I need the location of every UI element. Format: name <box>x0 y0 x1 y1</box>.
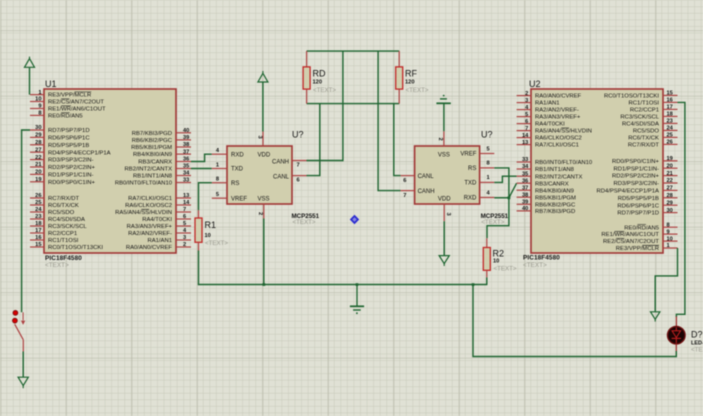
svg-text:VSS: VSS <box>258 196 270 202</box>
svg-text:RA0/AN0/CVREF: RA0/AN0/CVREF <box>535 94 582 100</box>
resistor R1 10 <box>195 210 228 250</box>
wire U3 VSS pin2 to ground bus <box>263 219 265 285</box>
svg-text:RC5/SDO: RC5/SDO <box>48 210 75 216</box>
svg-text:RE0/RD/AN5: RE0/RD/AN5 <box>48 114 83 120</box>
wire R1 to ground bus <box>198 251 200 286</box>
svg-text:CANL: CANL <box>273 175 290 181</box>
svg-text:RD2/PSP2/C2IN+: RD2/PSP2/C2IN+ <box>48 165 96 171</box>
svg-text:15: 15 <box>667 91 673 97</box>
svg-text:7: 7 <box>403 193 406 199</box>
svg-text:37: 37 <box>183 149 189 155</box>
svg-text:RB7/KBI3/PGD: RB7/KBI3/PGD <box>132 131 172 137</box>
svg-text:RE2/CS/AN7/C2OUT: RE2/CS/AN7/C2OUT <box>603 239 659 245</box>
svg-text:6: 6 <box>297 178 300 184</box>
svg-text:VDD: VDD <box>438 197 451 203</box>
svg-text:RC4/SDI/SDA: RC4/SDI/SDA <box>622 122 659 128</box>
svg-text:3: 3 <box>525 98 528 104</box>
wire CAN top bus <box>307 50 400 52</box>
svg-text:PIC18F4580: PIC18F4580 <box>45 255 82 262</box>
wire junction diagonal to U2 pin36 CANRX <box>509 183 517 198</box>
svg-text:1: 1 <box>667 243 670 249</box>
svg-text:RB2/INT2/CANTX: RB2/INT2/CANTX <box>535 174 583 180</box>
svg-text:RC7/RX/DT: RC7/RX/DT <box>628 143 659 149</box>
svg-text:RF: RF <box>405 69 417 79</box>
svg-text:RA4/T0CKI: RA4/T0CKI <box>535 122 565 128</box>
svg-text:RE2/CS/AN7/C2OUT: RE2/CS/AN7/C2OUT <box>48 100 104 106</box>
svg-text:5: 5 <box>487 146 490 152</box>
svg-text:RA5/AN4/SS/HLVDIN: RA5/AN4/SS/HLVDIN <box>115 210 172 216</box>
svg-text:23: 23 <box>667 119 673 125</box>
svg-text:25: 25 <box>35 200 41 206</box>
wire U2 pin1 MCLR to power arrow <box>655 248 677 311</box>
svg-text:RC6/TX/CK: RC6/TX/CK <box>48 203 79 209</box>
wire power arrow to U3 VDD pin3 <box>262 82 264 132</box>
CAN transceiver U? (left) MCP2551 <box>212 130 320 227</box>
svg-text:RD: RD <box>313 69 326 79</box>
svg-text:40: 40 <box>183 128 189 134</box>
svg-text:VREF: VREF <box>231 196 247 202</box>
svg-text:RB3/CANRX: RB3/CANRX <box>138 160 172 166</box>
svg-text:27: 27 <box>667 186 673 192</box>
svg-text:RA7/CLKI/OSC1: RA7/CLKI/OSC1 <box>535 143 579 149</box>
svg-text:27: 27 <box>35 147 41 153</box>
svg-text:RXD: RXD <box>464 196 477 202</box>
svg-text:28: 28 <box>667 193 673 199</box>
switch SW-SPST <box>13 311 25 352</box>
svg-text:RXD: RXD <box>231 152 244 158</box>
svg-text:RA1/AN1: RA1/AN1 <box>147 238 172 244</box>
svg-text:25: 25 <box>667 133 673 139</box>
svg-text:RB0/INT0/FLT0/AN10: RB0/INT0/FLT0/AN10 <box>535 160 593 166</box>
svg-text:21: 21 <box>35 162 41 168</box>
svg-text:38: 38 <box>522 192 528 198</box>
svg-text:26: 26 <box>35 193 41 199</box>
svg-text:RC3/SCK/SCL: RC3/SCK/SCL <box>620 115 659 121</box>
svg-text:8: 8 <box>216 177 219 183</box>
svg-text:10: 10 <box>667 236 673 242</box>
power terminal (arrow down) below U4 <box>439 256 449 266</box>
svg-text:RE1/WR/AN6/C1OUT: RE1/WR/AN6/C1OUT <box>601 232 659 238</box>
svg-text:RE3/VPP/MCLR: RE3/VPP/MCLR <box>48 93 91 99</box>
svg-text:VDD: VDD <box>258 152 271 158</box>
svg-text:1: 1 <box>38 90 41 96</box>
svg-text:22: 22 <box>35 155 41 161</box>
svg-text:7: 7 <box>183 207 186 213</box>
svg-text:RC7/RX/DT: RC7/RX/DT <box>48 196 79 202</box>
svg-text:RC3/SCK/SCL: RC3/SCK/SCL <box>48 224 87 230</box>
junction ground bus / U3 VSS <box>263 283 266 286</box>
svg-text:33: 33 <box>183 178 189 184</box>
svg-text:21: 21 <box>667 171 673 177</box>
svg-text:120: 120 <box>313 80 323 86</box>
svg-text:2: 2 <box>183 242 186 248</box>
svg-text:RC0/T1OSO/T13CKI: RC0/T1OSO/T13CKI <box>604 94 659 100</box>
svg-text:19: 19 <box>35 177 41 183</box>
svg-text:U?: U? <box>481 130 493 140</box>
svg-text:RC1/T1OSI: RC1/T1OSI <box>48 238 79 244</box>
svg-text:29: 29 <box>35 133 41 139</box>
svg-text:RA7/CLKI/OSC1: RA7/CLKI/OSC1 <box>128 196 172 202</box>
svg-text:RA1/AN1: RA1/AN1 <box>535 101 560 107</box>
wire U4 RS pin8 to junction <box>494 168 509 198</box>
svg-text:29: 29 <box>667 200 673 206</box>
wire U1 pin35 CANTX to U3 TXD <box>191 168 212 170</box>
svg-text:3: 3 <box>445 213 451 216</box>
svg-text:6: 6 <box>403 178 406 184</box>
svg-text:2: 2 <box>257 212 263 215</box>
wire U3 CANL to bottom bus <box>307 104 320 176</box>
svg-text:120: 120 <box>405 80 415 86</box>
svg-text:13: 13 <box>522 140 528 146</box>
wire R2 to ground bus <box>486 277 488 285</box>
svg-text:17: 17 <box>35 228 41 234</box>
svg-text:14: 14 <box>183 200 190 206</box>
svg-text:VREF: VREF <box>460 152 476 158</box>
svg-text:8: 8 <box>38 111 41 117</box>
svg-text:RA0/AN0/CVREF: RA0/AN0/CVREF <box>126 245 173 251</box>
svg-text:R1: R1 <box>205 220 217 230</box>
svg-text:RD6/PSP6/P1C: RD6/PSP6/P1C <box>617 203 659 209</box>
svg-text:13: 13 <box>183 193 189 199</box>
svg-text:33: 33 <box>522 157 528 163</box>
svg-text:RB2/INT2/CANTX: RB2/INT2/CANTX <box>125 167 173 173</box>
svg-text:36: 36 <box>522 178 528 184</box>
svg-text:24: 24 <box>667 126 674 132</box>
svg-text:CANH: CANH <box>418 189 435 195</box>
origin marker (blue diamond) <box>350 215 359 224</box>
svg-text:8: 8 <box>487 161 490 167</box>
svg-text:3: 3 <box>257 136 263 139</box>
svg-text:CANH: CANH <box>272 160 289 166</box>
svg-text:RD7/PSP7/P1D: RD7/PSP7/P1D <box>617 211 659 217</box>
wire U2 pin16 to LED anode <box>676 102 685 317</box>
svg-text:38: 38 <box>183 142 189 148</box>
wire U1 pin30 RD7 to switch <box>22 130 30 312</box>
svg-text:RB4/KBI0/AN9: RB4/KBI0/AN9 <box>535 188 574 194</box>
svg-text:1: 1 <box>487 175 490 181</box>
svg-text:19: 19 <box>667 156 673 162</box>
svg-text:18: 18 <box>35 221 41 227</box>
ground terminal (arrow down) bottom-left <box>18 377 28 388</box>
wire U1 pin36 CANRX to U3 RXD <box>191 154 212 161</box>
svg-text:TXD: TXD <box>231 167 244 173</box>
svg-text:20: 20 <box>667 163 673 169</box>
svg-text:5: 5 <box>183 221 186 227</box>
svg-text:16: 16 <box>667 98 673 104</box>
wire U4 CANH to top bus <box>378 51 401 191</box>
svg-text:7: 7 <box>297 163 300 169</box>
svg-text:D?: D? <box>691 330 703 340</box>
svg-text:RB7/KBI3/PGD: RB7/KBI3/PGD <box>535 209 575 215</box>
power terminal (arrow down) for U2 MCLR net <box>651 312 660 322</box>
svg-text:VSS: VSS <box>438 152 450 158</box>
svg-text:RC2/CCP1: RC2/CCP1 <box>48 231 77 237</box>
svg-text:RE0/RD/AN5: RE0/RD/AN5 <box>624 225 659 231</box>
svg-text:RD3/PSP3/C2IN-: RD3/PSP3/C2IN- <box>613 181 659 187</box>
svg-text:36: 36 <box>183 157 189 163</box>
svg-text:30: 30 <box>35 125 41 131</box>
svg-text:<TEXT>: <TEXT> <box>293 219 316 226</box>
svg-text:28: 28 <box>35 140 41 146</box>
svg-text:RB6/KBI2/PGC: RB6/KBI2/PGC <box>535 202 576 208</box>
LED D? <box>668 317 703 354</box>
svg-text:<TEXT>: <TEXT> <box>313 87 336 94</box>
svg-text:14: 14 <box>522 133 529 139</box>
svg-text:24: 24 <box>35 207 42 213</box>
svg-text:5: 5 <box>216 192 219 198</box>
wire U3 RS pin8 to R1 <box>199 183 212 211</box>
svg-text:8: 8 <box>667 222 670 228</box>
svg-text:30: 30 <box>667 208 673 214</box>
svg-text:3: 3 <box>183 235 186 241</box>
svg-text:<TEXT>: <TEXT> <box>205 240 228 247</box>
svg-text:34: 34 <box>522 164 529 170</box>
svg-text:9: 9 <box>667 229 670 235</box>
svg-text:35: 35 <box>522 171 528 177</box>
wire U3 CANH to top bus <box>307 51 343 160</box>
svg-text:2: 2 <box>437 138 443 141</box>
resistor RF 120 <box>396 51 429 104</box>
svg-text:CANL: CANL <box>418 174 435 180</box>
svg-text:RC2/CCP1: RC2/CCP1 <box>630 108 659 114</box>
svg-text:16: 16 <box>35 235 41 241</box>
svg-text:RD1/PSP1/C1IN-: RD1/PSP1/C1IN- <box>613 166 659 172</box>
svg-text:7: 7 <box>525 126 528 132</box>
svg-text:15: 15 <box>35 242 41 248</box>
wire junction to U4 RXD pin4 <box>494 197 509 199</box>
svg-text:R2: R2 <box>493 249 505 259</box>
svg-text:RB5/KBI1/PGM: RB5/KBI1/PGM <box>535 195 576 201</box>
svg-text:RD5/PSP5/P1B: RD5/PSP5/P1B <box>48 143 89 149</box>
svg-text:10: 10 <box>205 233 211 239</box>
resistor RD 120 <box>303 51 336 104</box>
svg-text:RD1/PSP1/C1IN-: RD1/PSP1/C1IN- <box>48 173 94 179</box>
svg-text:9: 9 <box>38 104 41 110</box>
svg-text:RB5/KBI1/PGM: RB5/KBI1/PGM <box>131 145 172 151</box>
svg-text:1: 1 <box>216 162 219 168</box>
svg-text:22: 22 <box>667 178 673 184</box>
svg-text:RB0/INT0/FLT0/AN10: RB0/INT0/FLT0/AN10 <box>115 181 173 187</box>
svg-text:RE3/VPP/MCLR: RE3/VPP/MCLR <box>616 246 659 252</box>
svg-text:RB3/CANRX: RB3/CANRX <box>535 181 569 187</box>
svg-text:U1: U1 <box>45 79 57 89</box>
svg-text:RE1/WR/AN6/C1OUT: RE1/WR/AN6/C1OUT <box>48 107 106 113</box>
svg-text:RD6/PSP6/P1C: RD6/PSP6/P1C <box>48 136 90 142</box>
svg-text:6: 6 <box>525 119 528 125</box>
svg-text:2: 2 <box>525 91 528 97</box>
svg-text:RC0/T1OSO/T13CKI: RC0/T1OSO/T13CKI <box>48 245 103 251</box>
wire switch to ground arrow <box>22 352 24 378</box>
svg-text:35: 35 <box>183 164 189 170</box>
resistor R2 10 <box>483 238 517 277</box>
power terminal (arrow up) feeding U1 MCLR <box>25 57 35 68</box>
wire power terminal to U1 pin1 <box>29 67 31 94</box>
svg-text:RA6/CLKO/OSC2: RA6/CLKO/OSC2 <box>535 136 582 142</box>
svg-text:RB4/KBI0/AN9: RB4/KBI0/AN9 <box>133 152 172 158</box>
svg-text:<TEXT>: <TEXT> <box>523 262 547 269</box>
svg-text:RA3/AN3/VREF+: RA3/AN3/VREF+ <box>127 224 173 230</box>
svg-text:10: 10 <box>493 259 499 265</box>
svg-text:RA6/CLKO/OSC2: RA6/CLKO/OSC2 <box>125 203 172 209</box>
svg-text:17: 17 <box>667 105 673 111</box>
svg-text:RB6/KBI2/PGC: RB6/KBI2/PGC <box>132 138 173 144</box>
svg-text:6: 6 <box>183 214 186 220</box>
svg-text:34: 34 <box>183 171 190 177</box>
svg-text:<TEXT: <TEXT <box>691 347 703 354</box>
svg-text:RA3/AN3/VREF+: RA3/AN3/VREF+ <box>535 115 581 121</box>
svg-text:RD0/PSP0/C1IN+: RD0/PSP0/C1IN+ <box>612 159 660 165</box>
svg-text:RD4/PSP4/ECCP1/P1A: RD4/PSP4/ECCP1/P1A <box>596 189 659 195</box>
ground symbol above U4 VSS <box>436 95 450 104</box>
svg-text:39: 39 <box>183 135 189 141</box>
svg-text:RS: RS <box>231 181 239 187</box>
svg-text:RD0/PSP0/C1IN+: RD0/PSP0/C1IN+ <box>48 180 96 186</box>
svg-text:RA2/AN2/VREF-: RA2/AN2/VREF- <box>128 231 172 237</box>
svg-text:<TEXT>: <TEXT> <box>45 262 69 269</box>
svg-text:U2: U2 <box>529 79 541 89</box>
svg-text:RD7/PSP7/P1D: RD7/PSP7/P1D <box>48 128 90 134</box>
svg-text:RC4/SDI/SDA: RC4/SDI/SDA <box>48 217 85 223</box>
svg-text:RS: RS <box>468 166 476 172</box>
junction ground bus / LED return <box>472 283 475 286</box>
wire ground bus horizontal <box>198 284 487 286</box>
svg-text:<TEXT>: <TEXT> <box>406 87 429 94</box>
svg-text:<TEXT>: <TEXT> <box>494 266 517 273</box>
svg-text:23: 23 <box>35 214 41 220</box>
svg-text:RD5/PSP5/P1B: RD5/PSP5/P1B <box>618 196 659 202</box>
svg-text:26: 26 <box>667 140 673 146</box>
svg-text:10: 10 <box>35 97 41 103</box>
svg-text:18: 18 <box>667 112 673 118</box>
svg-text:RA5/AN4/SS/HLVDIN: RA5/AN4/SS/HLVDIN <box>535 129 592 135</box>
ground symbol on bus <box>350 285 364 315</box>
CAN transceiver U? (right) MCP2551 <box>401 130 509 227</box>
svg-text:RD4/PSP4/ECCP1/P1A: RD4/PSP4/ECCP1/P1A <box>48 150 111 156</box>
svg-text:5: 5 <box>525 112 528 118</box>
svg-text:37: 37 <box>522 185 528 191</box>
junction ground bus / ground symbol <box>356 283 359 286</box>
svg-text:RC5/SDO: RC5/SDO <box>633 129 660 135</box>
svg-text:PIC18F4580: PIC18F4580 <box>523 255 560 262</box>
junction RS/RXD node <box>508 196 511 199</box>
svg-text:20: 20 <box>35 170 41 176</box>
svg-text:RB1/INT1/AN8: RB1/INT1/AN8 <box>535 167 575 173</box>
svg-text:TXD: TXD <box>464 181 477 187</box>
svg-text:U?: U? <box>292 130 304 140</box>
svg-text:RD3/PSP3/C2IN-: RD3/PSP3/C2IN- <box>48 158 94 164</box>
wire U4 CANL to bottom bus <box>394 104 401 176</box>
svg-text:39: 39 <box>522 200 528 206</box>
svg-text:RA4/T0CKI: RA4/T0CKI <box>142 217 172 223</box>
wire LED cathode return to ground bus <box>473 285 676 357</box>
microcontroller U2 PIC18F4580 <box>517 79 678 269</box>
svg-text:RC1/T1OSI: RC1/T1OSI <box>629 101 660 107</box>
svg-text:RD2/PSP2/C2IN+: RD2/PSP2/C2IN+ <box>612 174 660 180</box>
svg-text:<TEXT>: <TEXT> <box>481 219 504 226</box>
svg-text:40: 40 <box>522 206 528 212</box>
microcontroller U1 PIC18F4580 <box>30 79 191 269</box>
wire CAN bottom bus <box>307 103 400 105</box>
svg-text:RB1/INT1/AN8: RB1/INT1/AN8 <box>133 174 173 180</box>
svg-text:RC6/TX/CK: RC6/TX/CK <box>628 136 659 142</box>
wire junction down to R2 <box>487 198 509 239</box>
power terminal (arrow up) above U3 VDD <box>258 71 268 82</box>
svg-text:RA2/AN2/VREF-: RA2/AN2/VREF- <box>535 108 579 114</box>
wire U4 VDD pin3 to power arrow <box>443 221 445 255</box>
wire U4 VSS pin2 to ground symbol <box>443 103 445 131</box>
wire U4 TXD pin1 to U2 pin35 CANTX <box>494 176 516 182</box>
